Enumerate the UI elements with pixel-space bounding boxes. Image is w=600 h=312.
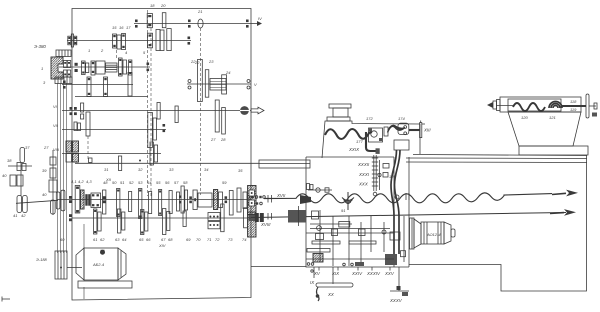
norton lower cluster 4	[163, 209, 170, 235]
pulley gears	[64, 61, 71, 78]
gear cluster 4	[82, 61, 89, 75]
fast motor cone	[414, 219, 421, 248]
tailstock handwheel	[586, 94, 589, 118]
margin stack A tall gear	[20, 148, 25, 163]
gear 57	[214, 190, 223, 210]
gear 23	[205, 70, 209, 98]
apron vertical shaft 2	[332, 216, 334, 266]
margin stack A gears	[17, 163, 26, 171]
svg-text:VII: VII	[53, 123, 59, 128]
norton gear g	[169, 191, 172, 214]
bed left bar	[259, 160, 310, 168]
gear cluster 27	[148, 113, 157, 148]
leadscrew arrow	[550, 209, 576, 216]
svg-text:17: 17	[126, 25, 131, 30]
shaft VI bearings left	[70, 107, 77, 115]
svg-text:50: 50	[112, 180, 117, 185]
belt loops 174	[388, 125, 406, 132]
leadscrew line	[251, 213, 566, 218]
feed jaw clutch	[85, 194, 90, 206]
motor shaft link	[67, 267, 82, 269]
tailstock screw shaft	[562, 105, 586, 107]
apron gear a	[312, 211, 319, 219]
svg-text:54: 54	[147, 180, 152, 185]
shaft IIIb	[75, 96, 148, 98]
norton gear a	[103, 190, 106, 214]
svg-text:33: 33	[169, 167, 174, 172]
tailstock quill tip blocks	[493, 100, 500, 111]
leadscrew coupling	[255, 213, 272, 222]
motor base	[78, 281, 132, 288]
apron right vertical	[401, 216, 406, 262]
svg-text:69: 69	[186, 237, 191, 242]
shaft II bearing right	[188, 37, 191, 45]
column clutch blob	[385, 254, 397, 265]
margin link line	[8, 165, 32, 167]
margin stack A blocks	[10, 175, 23, 186]
svg-text:40: 40	[2, 173, 7, 178]
svg-text:XX: XX	[327, 292, 335, 297]
svg-text:3: 3	[43, 80, 46, 85]
column crossing ticks	[406, 193, 409, 200]
svg-text:65: 65	[139, 237, 144, 242]
apron gear b	[316, 226, 324, 240]
svg-text:1: 1	[88, 48, 90, 53]
norton gear b	[117, 189, 120, 217]
svg-text:64: 64	[122, 237, 127, 242]
tailstock barrel	[500, 97, 581, 112]
shaft I	[134, 23, 251, 25]
svg-text:Э-380: Э-380	[34, 44, 46, 49]
lower gear P	[244, 208, 248, 228]
svg-text:71: 71	[207, 237, 211, 242]
gear 9	[128, 73, 132, 97]
svg-text:53: 53	[138, 180, 143, 185]
worm side shaft	[378, 160, 389, 190]
svg-text:АБ2-4: АБ2-4	[92, 262, 105, 267]
svg-text:IX: IX	[310, 280, 315, 285]
apron gear d	[359, 229, 366, 236]
shaft I exit arrow	[251, 21, 262, 26]
apron internal line 4	[306, 258, 394, 260]
apron vertical shaft 1	[319, 210, 321, 262]
headstock pedestal cap	[329, 104, 351, 108]
svg-text:V: V	[254, 82, 257, 87]
gear 43 cluster	[75, 186, 84, 214]
feed rod arrow	[552, 190, 578, 197]
feed shaft upper	[57, 199, 251, 201]
apron top circle row	[308, 188, 332, 192]
fast motor body	[421, 222, 444, 244]
svg-text:52: 52	[129, 180, 134, 185]
motor pulley block hatched	[55, 251, 67, 279]
spindle end bar	[420, 123, 422, 138]
svg-text:22: 22	[194, 60, 200, 65]
worm wheel circles	[373, 192, 399, 199]
belt tensioner box 172	[369, 128, 383, 142]
svg-text:68: 68	[168, 237, 173, 242]
fast motor cap	[444, 222, 451, 244]
gear 20 on shaft I	[162, 13, 166, 28]
svg-text:5: 5	[143, 50, 146, 55]
svg-text:70: 70	[196, 237, 201, 242]
coupling box wide	[198, 193, 212, 207]
svg-text:61: 61	[93, 237, 97, 242]
svg-text:XIX: XIX	[331, 271, 340, 276]
svg-text:58: 58	[183, 180, 188, 185]
shaft II coupling	[68, 34, 77, 47]
wire: bottom link gearbox to apron	[251, 266, 306, 268]
leadscrew clutch in box	[248, 212, 256, 237]
svg-text:XXXI: XXXI	[358, 172, 370, 177]
svg-text:XXXV: XXXV	[389, 298, 403, 303]
apron internal line 3	[306, 232, 394, 234]
apron bottom circles	[307, 263, 353, 266]
svg-text:59: 59	[222, 180, 227, 185]
apron dark bar	[355, 262, 364, 266]
shaft III	[59, 66, 150, 68]
margin stack B bottom gear	[51, 200, 56, 214]
norton gear e	[149, 192, 152, 214]
svg-text:172: 172	[366, 116, 373, 121]
shaft V bearing circles	[188, 80, 250, 90]
feed bearing 2	[103, 196, 106, 203]
dashed shifter	[116, 50, 118, 60]
apron top small rects	[307, 184, 314, 190]
norton gear f	[159, 190, 162, 216]
margin stack B gears	[49, 157, 57, 192]
shaft IX	[75, 162, 259, 164]
dashed link 26	[87, 136, 89, 160]
shaft I bearing right	[246, 20, 249, 28]
vertical column housing	[394, 140, 409, 267]
gear cluster 15-17	[113, 34, 126, 50]
halfnut lever bar	[316, 267, 353, 301]
svg-text:4,3: 4,3	[86, 179, 92, 184]
svg-text:51: 51	[120, 180, 124, 185]
svg-text:74: 74	[242, 237, 247, 242]
svg-text:23: 23	[208, 59, 214, 64]
gearbox housing outline	[72, 9, 251, 301]
apron label ticks	[319, 267, 390, 271]
motor body	[76, 248, 126, 280]
svg-text:39: 39	[42, 168, 47, 173]
svg-text:16: 16	[119, 25, 124, 30]
svg-text:4,1: 4,1	[71, 179, 77, 184]
svg-text:XXX: XXX	[358, 182, 369, 187]
svg-text:35: 35	[238, 168, 243, 173]
worm vertical shaft	[372, 155, 378, 191]
svg-text:118: 118	[570, 99, 577, 104]
shaft II	[67, 40, 191, 42]
svg-text:15: 15	[112, 25, 117, 30]
bed ways lines	[406, 155, 587, 163]
svg-text:XIV: XIV	[158, 243, 166, 248]
coupling box III	[96, 61, 105, 74]
gear 13	[215, 100, 225, 134]
svg-text:37: 37	[25, 145, 30, 150]
svg-text:XXIV: XXIV	[351, 271, 363, 276]
svg-text:40: 40	[42, 192, 47, 197]
feed rod coupling at gearbox	[247, 195, 271, 205]
margin feed line	[16, 200, 58, 203]
tailstock handwheel shaft	[589, 105, 596, 107]
svg-text:121: 121	[549, 115, 556, 120]
shaft I bearing left	[135, 20, 138, 28]
tailstock quill inner	[508, 99, 561, 111]
dashed fork line	[147, 10, 149, 196]
feed rod wavy line	[264, 193, 552, 203]
apron circle	[382, 230, 386, 234]
gears 41 42	[17, 196, 27, 213]
motor eye bolt	[100, 250, 104, 254]
svg-text:42: 42	[21, 213, 26, 218]
cone gear D	[193, 190, 197, 210]
gear 25 pair	[74, 122, 81, 131]
feed shaft lower	[72, 217, 251, 219]
svg-text:XVII: XVII	[276, 193, 286, 198]
main drive belt wavy	[325, 129, 372, 139]
spindle shaft XIII	[409, 129, 420, 131]
feed bearing mid	[179, 196, 181, 204]
norton gear c	[129, 192, 132, 212]
gear 10	[81, 103, 84, 119]
spindle bearing plate	[398, 123, 409, 135]
gear 26 tall	[86, 112, 90, 136]
pulley comb top	[56, 50, 71, 57]
cone bearing	[189, 196, 192, 203]
shaft IX pawl	[89, 158, 93, 163]
gear 24b	[222, 75, 227, 94]
gear 58	[229, 191, 233, 216]
shaft I bearing mid	[188, 20, 191, 28]
shaft V short	[187, 83, 251, 85]
shaft III bearing left	[75, 63, 78, 72]
gear 12	[175, 106, 178, 123]
svg-text:119: 119	[570, 107, 577, 112]
svg-text:4,2: 4,2	[78, 179, 84, 184]
apron flat bar 1	[312, 241, 340, 244]
feed bearing left pair	[69, 196, 72, 221]
svg-text:XXXII: XXXII	[357, 162, 370, 167]
headstock body	[322, 121, 420, 158]
svg-text:4: 4	[125, 50, 128, 55]
overload coupling discs	[240, 106, 250, 115]
apron vertical shaft 6	[383, 222, 385, 252]
svg-text:73: 73	[228, 237, 233, 242]
svg-text:91: 91	[341, 208, 345, 213]
svg-text:XXIX: XXIX	[348, 147, 360, 152]
svg-text:18: 18	[150, 3, 155, 8]
apron flat bar 2	[349, 241, 376, 244]
tailstock spring arcs 121	[549, 102, 562, 109]
tumbler tall gear	[221, 204, 224, 232]
shaft IIIa bearing	[63, 81, 66, 89]
right cone cluster	[237, 188, 247, 212]
svg-text:28: 28	[220, 137, 226, 142]
bottom right hanger	[390, 267, 409, 296]
dashed fork line 2	[150, 28, 152, 196]
svg-text:XXV: XXV	[384, 271, 395, 276]
gear 31	[150, 142, 158, 165]
shaft IIIa	[62, 84, 133, 86]
apron internal line 1	[310, 223, 352, 225]
svg-text:27: 27	[210, 137, 216, 142]
tailstock screw wavy 120	[513, 103, 545, 111]
gear 8a	[87, 77, 91, 97]
belt idler 173	[384, 127, 388, 136]
svg-text:38: 38	[7, 158, 12, 163]
svg-text:67: 67	[161, 237, 166, 242]
below apron hanger	[310, 267, 315, 285]
norton lower cluster 3	[141, 210, 148, 235]
norton lower cluster 1	[94, 209, 102, 234]
apron box	[306, 157, 409, 267]
gear 20b	[167, 29, 171, 51]
apron dark cluster	[313, 254, 323, 263]
shaft VI exit open arrow	[251, 107, 264, 114]
svg-text:57: 57	[174, 180, 179, 185]
apron pointer blob	[300, 195, 311, 204]
svg-text:66: 66	[146, 237, 151, 242]
dashed link 22	[200, 28, 202, 195]
gear 18 on shaft I	[147, 14, 152, 28]
svg-text:41: 41	[13, 213, 17, 218]
shaft VII bearing right	[163, 124, 166, 132]
tailstock quill axis	[496, 105, 514, 107]
tailstock center cone	[487, 102, 493, 108]
apron flat bar 3	[307, 249, 330, 253]
svg-text:24: 24	[225, 70, 231, 75]
svg-text:60: 60	[60, 237, 65, 242]
norton gear h	[177, 192, 180, 211]
gear cluster 5	[91, 61, 95, 75]
svg-text:20: 20	[160, 3, 166, 8]
margin stack B vertical	[52, 150, 54, 215]
svg-text:55: 55	[156, 180, 161, 185]
headstock pedestal base	[327, 117, 350, 121]
pulley comb bottom	[55, 77, 72, 84]
svg-text:VI: VI	[53, 104, 58, 109]
shaft VII	[62, 129, 166, 131]
apron internal line 2	[310, 228, 390, 230]
gear cluster 19	[148, 30, 165, 51]
apron gear f	[390, 232, 400, 240]
svg-text:27: 27	[43, 145, 49, 150]
apron vertical shaft 5	[370, 216, 372, 252]
tailstock pedestal	[508, 112, 581, 146]
gear 11	[157, 103, 160, 120]
svg-text:120: 120	[521, 115, 528, 120]
svg-text:XII: XII	[105, 177, 112, 182]
upper bearing 2	[225, 196, 228, 203]
svg-text:2: 2	[100, 48, 104, 53]
clutch block 28	[66, 141, 79, 162]
svg-text:31: 31	[104, 167, 108, 172]
worm drop symbol	[342, 192, 354, 210]
svg-text:174: 174	[398, 116, 405, 121]
shaft VI long	[62, 110, 251, 112]
svg-text:VIII: VIII	[53, 147, 60, 152]
gear 22 tall	[198, 60, 203, 102]
svg-text:21: 21	[197, 9, 202, 14]
svg-text:72: 72	[215, 237, 220, 242]
tailstock clamp mark	[592, 113, 597, 117]
gear cluster 6	[119, 58, 127, 76]
bed right leg outline	[409, 155, 587, 291]
svg-text:56: 56	[165, 180, 170, 185]
belt lines to motor	[58, 84, 67, 254]
svg-text:АО12-4: АО12-4	[426, 232, 441, 237]
svg-text:IV: IV	[258, 16, 262, 21]
input pulley hatched bracket	[51, 57, 63, 79]
shaft III bearing right	[147, 63, 150, 72]
svg-text:177: 177	[356, 139, 363, 144]
svg-text:32: 32	[138, 167, 143, 172]
svg-text:34: 34	[204, 167, 209, 172]
headstock pedestal column	[333, 108, 348, 117]
tumbler dotted boxes	[208, 213, 220, 229]
leader line	[83, 224, 85, 256]
svg-text:XXXIV: XXXIV	[366, 271, 381, 276]
leadscrew nut block	[288, 210, 306, 223]
svg-text:XIII: XIII	[423, 128, 431, 133]
svg-text:1: 1	[41, 66, 43, 71]
fast motor stub	[451, 229, 455, 237]
gear 7	[129, 60, 132, 75]
norton lower cluster 2	[118, 209, 125, 233]
belt down bold line	[366, 132, 377, 151]
margin vertical link	[20, 171, 22, 196]
gear 41-42 pair outside	[56, 190, 65, 211]
svg-text:63: 63	[115, 237, 120, 242]
column drive bold lines	[391, 150, 400, 254]
norton gear d	[139, 189, 142, 219]
shaft IX gear 32	[119, 156, 122, 171]
svg-text:62: 62	[100, 237, 105, 242]
tailstock handwheel knob	[594, 103, 597, 109]
feed coupling box	[91, 193, 101, 208]
tailstock base plate	[519, 146, 588, 155]
apron gear c	[332, 229, 338, 236]
gear 8	[104, 77, 108, 97]
friction clutch hatched	[106, 63, 118, 72]
svg-text:Э-188: Э-188	[36, 257, 48, 262]
lower left gear M	[183, 211, 186, 227]
svg-text:XVIII: XVIII	[260, 222, 271, 227]
apron vertical shaft 4	[360, 222, 362, 266]
pinion drum 24	[210, 79, 226, 91]
shaft VIII	[62, 153, 161, 155]
shaft IX dot	[139, 160, 141, 162]
meander cone cluster	[181, 186, 188, 213]
svg-text:128: 128	[389, 174, 396, 179]
apron vertical shaft 3	[348, 216, 350, 266]
fast motor flange	[410, 218, 415, 249]
bottom left mark	[2, 297, 10, 302]
upper clutch hatched	[248, 186, 256, 215]
apron coupling box	[339, 222, 350, 228]
eccentric 21	[198, 19, 203, 28]
